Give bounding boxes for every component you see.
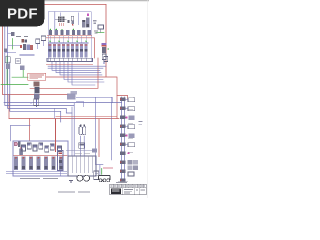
right chain node 5 [120, 134, 126, 137]
wire green left return riser [6, 56, 8, 85]
pressure switch S1 [14, 142, 20, 148]
reservoir tank T1 [68, 156, 96, 176]
wire green riser mid [22, 70, 24, 77]
valve V25 [34, 99, 39, 106]
page right edge line [146, 0, 148, 198]
wire green gauge link [96, 32, 104, 34]
wire left stub 2 [5, 51, 16, 53]
title block [110, 184, 147, 194]
wire pink pump line [103, 167, 113, 169]
wire fan mid 3 [54, 108, 56, 118]
right chain node 9 [120, 170, 126, 173]
motor M1 [84, 175, 90, 181]
gauge port fitting [4, 49, 7, 53]
wire top cluster stem [78, 12, 80, 25]
bank valve B2 [21, 157, 25, 171]
bank valve B1 [14, 157, 18, 171]
valve bank upper V7 [76, 44, 79, 58]
wire green suction line [1, 84, 28, 86]
check valve CV1 [16, 58, 21, 63]
accumulator A2 [83, 124, 86, 134]
solenoid valve SV7 [128, 152, 130, 154]
solenoid Y4 [66, 30, 69, 35]
heat exchanger block H1 [55, 12, 66, 26]
right chain node 3 [120, 116, 126, 119]
wire purple drop left pair [73, 103, 75, 156]
wire purple mid bus y65 [48, 67, 103, 69]
wire purple right chain rail b [124, 97, 126, 180]
bank valve B6 [51, 157, 55, 171]
page top shade [0, 0, 149, 3]
green indicator dots [49, 41, 86, 42]
pilot valve PV7 [58, 146, 62, 152]
relief valve RV4 [125, 125, 134, 129]
aux valve box [92, 148, 97, 152]
solenoid Y7 [82, 30, 85, 35]
wire solenoid stems [50, 36, 86, 43]
wire purple long bus y105 [5, 24, 74, 105]
bank valve B5 [44, 157, 48, 171]
wire red bus y88 [30, 58, 98, 88]
right chain node 1 [120, 98, 126, 101]
wire fan mid 2 [76, 101, 83, 107]
pilot valve PV4 [39, 143, 43, 149]
wire red tank drop [98, 119, 100, 158]
wire purple right chain rail a [121, 97, 123, 180]
wire purple long bus y108 [8, 24, 72, 113]
wire purple mid bus y63 [48, 65, 106, 67]
wire red bank rail [14, 154, 68, 156]
relief valve RV9 [128, 172, 134, 176]
pilot valve PV6 [50, 144, 54, 150]
bank caption text [20, 177, 58, 179]
wire fanout step 2 [56, 62, 101, 73]
wire purple drop to pump bracket [99, 165, 101, 175]
wire red bottom feeder [9, 118, 119, 120]
right chain node 2 [120, 107, 126, 110]
valve bank upper V5 [67, 44, 70, 58]
wire bank lower rail [6, 172, 67, 174]
pilot valve PV5 [45, 146, 49, 152]
label text specks tank [75, 153, 90, 155]
wire red solenoid rail [47, 35, 92, 37]
valve bank upper V1 [49, 44, 52, 58]
label text specks left cluster [16, 36, 28, 38]
wire purple drop left pair b [71, 107, 73, 156]
wire fanout step 4 [64, 62, 103, 80]
relief valve RV6 [125, 143, 134, 147]
valve group V20 [20, 44, 35, 55]
solenoid Y1 [49, 29, 52, 35]
solenoid Y3 [60, 29, 63, 35]
right chain node 7 [120, 152, 126, 155]
right chain node 8 [120, 161, 126, 164]
right chain node 6 [120, 143, 126, 146]
cylinder C1 [58, 151, 64, 177]
company logo [111, 188, 121, 194]
valve V26 [79, 143, 85, 149]
wire fanout step 1 [52, 62, 100, 71]
wire purple top cluster feed [54, 12, 56, 31]
solenoid valve SV3 [126, 116, 135, 121]
wire red cylinder feed [55, 119, 57, 153]
filter F1 [36, 39, 40, 49]
wire fan mid 1 [76, 97, 112, 102]
wire purple long bus y103 [4, 102, 122, 104]
wire drawing frame left [3, 24, 69, 95]
label text below chain [118, 181, 128, 183]
label text specks chain [128, 98, 133, 153]
motor starter box [94, 171, 99, 180]
valve bank upper V6 [71, 44, 74, 58]
PDF badge [0, 0, 44, 26]
wire red right-chain drop [117, 96, 128, 100]
bank valve B3 [29, 157, 33, 171]
valve bank upper V4 [62, 44, 65, 58]
wire red bus y77 [46, 77, 117, 119]
pilot valve PV2 [27, 143, 31, 149]
wire purple long bus y111 [10, 62, 61, 122]
solenoid Y8 [88, 30, 91, 35]
right chain node 4 [120, 125, 126, 128]
wire purple accumulator stems [81, 136, 85, 156]
tiny caption above title block [116, 182, 127, 184]
wire tank top line [66, 150, 96, 152]
bank valve B4 [36, 157, 40, 171]
wire purple drop x111 [111, 103, 113, 160]
bank valve B7 [59, 157, 63, 171]
relief valve RV2 [125, 107, 134, 111]
label text specks top cluster [94, 31, 98, 33]
wire fanout step 3 [60, 62, 102, 75]
bottom-left bank enclosure [13, 141, 68, 176]
relief valve RV1 [125, 98, 134, 102]
manifold bar [47, 58, 93, 61]
pump P2 [5, 57, 10, 69]
wire purple bank inlet [11, 125, 31, 141]
wire drawing frame top [4, 4, 106, 6]
valve bank upper V2 [53, 44, 56, 58]
note text red block [28, 73, 46, 80]
valve V24 [34, 82, 40, 108]
label text chain right [139, 122, 143, 125]
wire fanout step 6 [72, 62, 95, 86]
solenoid valve SV5 [126, 134, 135, 139]
valve bank upper V9 [85, 44, 88, 58]
solenoid Y6 [77, 30, 80, 35]
flag symbol top right [98, 25, 104, 33]
wire red upper feeder [56, 115, 118, 117]
valve V23 [102, 43, 110, 64]
node A [30, 102, 32, 104]
wire green pump drain [101, 169, 103, 175]
valve TV2 [82, 20, 85, 28]
wire green left riser [12, 39, 14, 50]
cooler assembly bracket [98, 176, 110, 182]
right chain node 10 [120, 179, 126, 182]
solenoid Y5 [72, 29, 75, 35]
drain plug bits [93, 20, 96, 24]
valve bank upper V3 [58, 44, 61, 58]
junction cluster mid [67, 91, 77, 100]
wire fanout step 5 [68, 62, 104, 83]
node green tap [23, 69, 24, 70]
wire drawing frame right [105, 5, 107, 77]
plug D1 [68, 20, 70, 23]
accumulator A1 [79, 124, 82, 134]
drain symbol [69, 181, 73, 183]
pump p3 small [19, 147, 23, 155]
wire bank top bus [48, 43, 89, 44]
wire red top-cluster rail [46, 38, 95, 58]
filter F2 [41, 36, 45, 46]
solenoid Y2 [55, 29, 58, 35]
top cluster enclosure [48, 12, 91, 62]
wire red valve-bank supply [29, 119, 31, 142]
pilot head V20a [21, 39, 27, 43]
valve bank upper V8 [80, 44, 83, 58]
valve V22 [20, 66, 24, 71]
valve TV3 [86, 13, 89, 27]
pilot valve PV3 [33, 145, 37, 151]
wire red frame drop [8, 95, 10, 119]
valve block matrix [128, 160, 139, 170]
wire red manifold rail [46, 63, 93, 65]
svg-text:PDF: PDF [7, 5, 38, 22]
wire left stub 1 [8, 44, 20, 46]
wire green return line [12, 76, 28, 78]
pump P1 [77, 175, 83, 181]
wire purple drop x95 [96, 97, 104, 164]
pilot valve PV1 [22, 145, 26, 151]
bus tap component [8, 32, 14, 36]
tiny caption text center bottom [58, 191, 90, 193]
valve TV1 [71, 16, 74, 26]
breather symbol [104, 54, 108, 62]
